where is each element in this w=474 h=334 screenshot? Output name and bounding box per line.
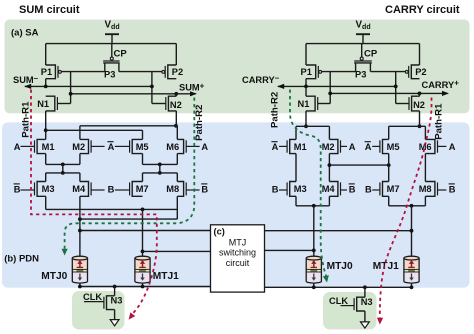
wire Vdd rail to P1 source bbox=[45, 44, 47, 65]
svg-text:P3: P3 bbox=[104, 70, 115, 80]
wire P1 gate cross-couple CARRY bbox=[322, 71, 356, 73]
svg-text:N3: N3 bbox=[361, 297, 373, 307]
transistor P1 CARRY bbox=[306, 65, 316, 79]
wire cross branch left SUM bbox=[70, 72, 72, 104]
svg-text:N1: N1 bbox=[37, 99, 49, 109]
svg-text:CARRY circuit: CARRY circuit bbox=[385, 4, 460, 16]
PDN rail line B SUM - N1 to M1 M5 bbox=[46, 129, 143, 131]
svg-text:MTJ: MTJ bbox=[229, 238, 247, 248]
input A to M2 gate CARRY bbox=[340, 145, 347, 147]
svg-text:P1: P1 bbox=[41, 67, 52, 77]
transistor M3 CARRY bbox=[290, 182, 296, 197]
Path-R1 dashed route SUM bbox=[31, 90, 157, 316]
svg-text:N2: N2 bbox=[170, 100, 182, 110]
ground bbox=[361, 322, 370, 328]
svg-text:A: A bbox=[349, 142, 356, 152]
bottom node wire CARRY bbox=[313, 283, 315, 287]
wire P3 to P2 gate CARRY bbox=[370, 71, 405, 73]
bottom rail left CARRY bbox=[295, 196, 297, 206]
wire P1 drain to node SUM- bbox=[45, 79, 47, 87]
svg-text:M5: M5 bbox=[136, 142, 149, 152]
transistor M8 CARRY bbox=[425, 182, 435, 197]
svg-text:N3: N3 bbox=[111, 295, 123, 305]
svg-text:M5: M5 bbox=[387, 142, 400, 152]
svg-text:B: B bbox=[272, 184, 279, 194]
wire N3 drain to output node bbox=[114, 287, 116, 296]
transistor M2 CARRY bbox=[329, 139, 338, 153]
bottom node wire SUM bbox=[79, 283, 81, 287]
mid rail link left SUM bbox=[62, 164, 64, 173]
top rail SUM bbox=[46, 43, 177, 45]
svg-text:B: B bbox=[201, 184, 208, 194]
wire M5 M7 series CARRY bbox=[388, 154, 390, 182]
PDN right rail CARRY bbox=[389, 125, 426, 127]
wire cross branch left CARRY bbox=[329, 72, 331, 104]
transistor M5 CARRY bbox=[383, 139, 389, 153]
panel (b) PDN background bbox=[2, 122, 470, 287]
Path-R1 dashed route CARRY bbox=[380, 98, 432, 318]
svg-text:switching: switching bbox=[219, 248, 256, 258]
wire N3 drain to output node bbox=[364, 287, 366, 297]
transistor N2 SUM bbox=[175, 94, 177, 96]
svg-text:(b) PDN: (b) PDN bbox=[4, 253, 39, 264]
svg-text:CLK: CLK bbox=[329, 296, 348, 306]
wire M4 drain to MTJ0 bbox=[79, 196, 81, 256]
transistor M7 CARRY bbox=[383, 182, 389, 197]
svg-text:CLK: CLK bbox=[83, 292, 102, 302]
transistor M3 SUM bbox=[37, 182, 46, 197]
wire to MTJ1 CARRY bbox=[411, 206, 413, 257]
svg-text:M4: M4 bbox=[72, 184, 86, 194]
svg-text:M2: M2 bbox=[72, 142, 85, 152]
wire to MTJ0 CARRY bbox=[313, 206, 315, 257]
svg-text:Path-R1: Path-R1 bbox=[433, 103, 444, 140]
transistor N2 CARRY bbox=[419, 93, 421, 96]
panel (a) SA background bbox=[5, 20, 470, 114]
wire cross branch right SUM bbox=[151, 72, 153, 104]
svg-text:B: B bbox=[449, 184, 456, 194]
mid rail lower right SUM bbox=[143, 172, 178, 174]
top rail CARRY bbox=[306, 43, 420, 45]
svg-text:B: B bbox=[14, 184, 21, 194]
equalizer P3 SUM with CP clock bbox=[111, 44, 113, 58]
svg-text:CARRY+: CARRY+ bbox=[422, 79, 460, 90]
wire rail to P1 source CARRY bbox=[305, 44, 307, 65]
transistor N3 bbox=[107, 296, 115, 310]
svg-text:Path-R1: Path-R1 bbox=[20, 101, 31, 138]
svg-text:M1: M1 bbox=[42, 142, 55, 152]
transistor N3 bbox=[357, 297, 365, 311]
svg-text:SUM circuit: SUM circuit bbox=[19, 4, 80, 16]
PDN left rail CARRY bbox=[296, 125, 329, 127]
svg-text:B: B bbox=[365, 184, 372, 194]
transistor M2 SUM bbox=[80, 139, 89, 153]
svg-text:M7: M7 bbox=[387, 184, 400, 194]
wire N2 to PDN CARRY bbox=[419, 111, 421, 126]
svg-text:A: A bbox=[14, 142, 21, 152]
transistor M6 SUM bbox=[177, 139, 183, 153]
wire P1 drain to node CARRY- bbox=[305, 79, 307, 87]
transistor P1 SUM bbox=[46, 65, 56, 79]
transistor M7 SUM bbox=[132, 182, 142, 197]
equalizer P3 CARRY with CP clock bbox=[361, 44, 363, 58]
wire M6 M8 series CARRY bbox=[424, 154, 426, 182]
mid rail link right SUM bbox=[159, 164, 161, 173]
input A to M6 gate bbox=[186, 145, 200, 147]
wire N1 to PDN line B bbox=[45, 111, 47, 139]
wire P3 to P2 gate bbox=[119, 71, 162, 73]
wire MTJ switching box lower SUM bbox=[143, 250, 211, 252]
svg-text:M1: M1 bbox=[294, 142, 307, 152]
svg-text:(c): (c) bbox=[214, 226, 225, 236]
svg-text:M3: M3 bbox=[42, 184, 55, 194]
wire M1 M3 series CARRY bbox=[295, 154, 297, 182]
node CARRY- line bbox=[278, 85, 396, 87]
mid rail upper right SUM bbox=[142, 154, 144, 165]
svg-text:CP: CP bbox=[114, 48, 128, 59]
wire P1 gate cross-couple bbox=[61, 71, 105, 73]
svg-text:M8: M8 bbox=[166, 184, 179, 194]
mid rail upper left SUM bbox=[45, 154, 47, 165]
svg-text:B: B bbox=[349, 184, 356, 194]
svg-text:CARRY–: CARRY– bbox=[242, 74, 280, 85]
svg-text:N1: N1 bbox=[298, 99, 310, 109]
svg-text:M3: M3 bbox=[294, 184, 307, 194]
svg-text:N2: N2 bbox=[413, 100, 425, 110]
MTJ0 SUM bbox=[72, 258, 87, 270]
wire N1 gate to branch CARRY bbox=[318, 103, 330, 105]
input Bbar to M8 gate CARRY bbox=[437, 189, 446, 191]
svg-text:A: A bbox=[449, 142, 456, 152]
transistor M1 CARRY bbox=[290, 139, 296, 153]
transistor M6 CARRY bbox=[425, 139, 435, 153]
svg-text:P1: P1 bbox=[301, 67, 312, 77]
input Bbar to M4 gate CARRY bbox=[340, 189, 347, 191]
node SUM+ line bbox=[71, 93, 177, 95]
svg-text:MTJ0: MTJ0 bbox=[41, 271, 67, 282]
svg-text:A: A bbox=[365, 142, 372, 152]
arrow SUM+ output bbox=[176, 93, 195, 95]
wire N3 source to ground bbox=[114, 310, 116, 320]
svg-text:M2: M2 bbox=[322, 142, 335, 152]
transistor M4 CARRY bbox=[329, 182, 338, 197]
wire Vdd rail to P2 source bbox=[175, 44, 177, 65]
wire cross branch right CARRY bbox=[395, 72, 397, 104]
node SUM- line bbox=[25, 85, 152, 87]
transistor N1 CARRY bbox=[305, 86, 307, 96]
svg-text:B: B bbox=[108, 184, 115, 194]
wire N1 gate to SUM+ branch bbox=[58, 103, 71, 105]
node CARRY+ line bbox=[330, 92, 419, 94]
transistor N1 SUM bbox=[46, 96, 55, 111]
svg-text:M7: M7 bbox=[136, 184, 149, 194]
transistor P2 SUM bbox=[168, 65, 177, 79]
mid rail lower left SUM bbox=[46, 172, 80, 174]
Path-R2 dashed route SUM bbox=[65, 98, 195, 250]
wire M7 to MTJ1 bbox=[142, 209, 144, 256]
svg-text:(a) SA: (a) SA bbox=[11, 27, 39, 38]
svg-text:M8: M8 bbox=[419, 184, 432, 194]
svg-text:Path-R2: Path-R2 bbox=[270, 92, 281, 128]
input A to M6 gate CARRY bbox=[437, 145, 446, 147]
arrow CARRY+ output bbox=[420, 92, 448, 94]
wire MTJ switching box upper SUM bbox=[80, 230, 211, 232]
wire N3 source to ground bbox=[364, 311, 366, 322]
transistor P2 CARRY bbox=[411, 65, 419, 79]
svg-text:A: A bbox=[108, 142, 115, 152]
svg-text:CP: CP bbox=[364, 48, 378, 59]
wire N2 gate to SUM- branch bbox=[152, 103, 166, 105]
svg-text:P2: P2 bbox=[415, 67, 426, 77]
MTJ1 SUM bbox=[135, 258, 150, 270]
wire MTJ switching box lower CARRY bbox=[265, 249, 314, 251]
svg-text:M6: M6 bbox=[166, 142, 179, 152]
MTJ1 CARRY bbox=[404, 258, 419, 270]
svg-text:P2: P2 bbox=[172, 67, 183, 77]
transistor M4 SUM bbox=[80, 182, 89, 197]
wire M8 to MTJ0 line bbox=[176, 196, 178, 219]
svg-text:MTJ1: MTJ1 bbox=[153, 271, 179, 282]
svg-text:A: A bbox=[201, 142, 208, 152]
transistor M1 SUM bbox=[37, 139, 46, 153]
wire M2 M4 series CARRY bbox=[328, 154, 330, 182]
svg-text:A: A bbox=[272, 142, 279, 152]
PDN rail line A SUM - N2 to M2 M6 bbox=[80, 125, 177, 127]
svg-text:P3: P3 bbox=[355, 70, 366, 80]
bottom rail right CARRY bbox=[388, 196, 390, 206]
svg-text:Path-R2: Path-R2 bbox=[194, 105, 205, 141]
transistor M8 SUM bbox=[177, 182, 183, 197]
bottom rail SUM PDN bbox=[45, 196, 47, 209]
MTJ0 CARRY bbox=[306, 258, 321, 270]
box (c) MTJ switching circuit bbox=[211, 225, 265, 292]
wire N1 to PDN CARRY bbox=[305, 111, 307, 126]
SUM clock footer background bbox=[72, 291, 125, 330]
bridge wire CARRY mid nodes bbox=[329, 164, 388, 166]
wire MTJ switching box upper CARRY bbox=[265, 230, 412, 232]
svg-text:MTJ0: MTJ0 bbox=[327, 261, 353, 272]
wire rail to P2 source CARRY bbox=[419, 44, 421, 65]
transistor M5 SUM bbox=[132, 139, 142, 153]
CARRY clock footer background bbox=[323, 292, 377, 330]
wire N2 gate to branch CARRY bbox=[396, 103, 409, 105]
input Bbar to M8 gate bbox=[186, 189, 200, 191]
svg-text:circuit: circuit bbox=[226, 258, 250, 268]
ground bbox=[110, 320, 119, 326]
Path-R2 dashed route CARRY bbox=[290, 90, 326, 277]
svg-text:M4: M4 bbox=[322, 184, 336, 194]
wire N2 to PDN line A bbox=[175, 111, 177, 126]
